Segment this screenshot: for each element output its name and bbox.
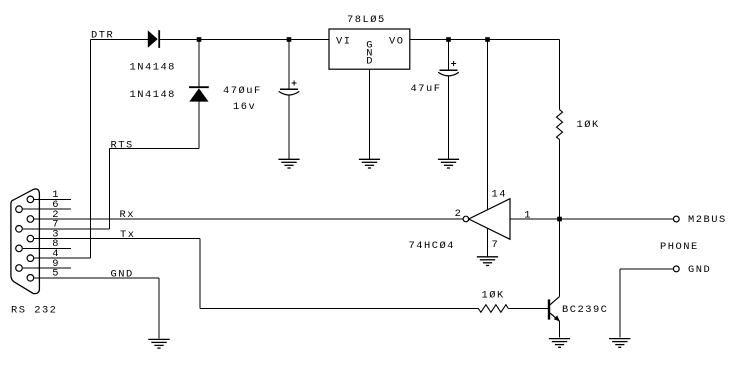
junction rail/D2 bbox=[197, 37, 202, 42]
regulator U2 78L05 box bbox=[329, 29, 410, 69]
wire R1 to junction bbox=[559, 140, 561, 219]
svg-text:78LØ5: 78LØ5 bbox=[347, 14, 386, 26]
svg-text:VO: VO bbox=[389, 35, 404, 47]
capacitor C1 470uF 16v bbox=[279, 81, 300, 96]
DB9 pin 4 bbox=[27, 248, 71, 262]
svg-text:BC239C: BC239C bbox=[562, 304, 608, 316]
DB9 pin 7 bbox=[16, 219, 71, 233]
svg-text:1ØK: 1ØK bbox=[482, 290, 505, 302]
terminal GND bbox=[673, 266, 679, 272]
wire Q1 collector bbox=[559, 219, 561, 297]
wire rail to C2 bbox=[448, 40, 450, 70]
wire Tx bottom horizontal bbox=[200, 308, 478, 310]
wire C2 to ground bbox=[448, 76, 450, 159]
svg-text:47uF: 47uF bbox=[411, 83, 442, 95]
svg-text:Rx: Rx bbox=[120, 209, 135, 221]
diode D2 1N4148 bbox=[189, 87, 209, 101]
DB9 connector shell bbox=[11, 189, 40, 294]
wire Q1 emitter to ground bbox=[559, 321, 561, 337]
wire RTS horizontal bbox=[110, 148, 199, 150]
wire D2 anode to RTS bbox=[198, 102, 200, 149]
wire rail to U1 pin14 bbox=[487, 40, 489, 210]
wire U1 pin1 to M2BUS bbox=[510, 218, 673, 220]
wire VO rail bbox=[410, 39, 560, 41]
wire DTR to D1 anode bbox=[90, 39, 148, 41]
wire U1 pin7 to ground bbox=[487, 228, 489, 256]
resistor R2 10K (horizontal) bbox=[478, 305, 508, 313]
wire 78L05 GND pin bbox=[369, 69, 371, 159]
wire C1 to ground bbox=[288, 95, 290, 158]
svg-text:1N4148: 1N4148 bbox=[130, 61, 176, 73]
DB9 pin 2 bbox=[27, 209, 71, 223]
label pin GND (stacked) bbox=[366, 40, 374, 68]
wire pin7 to RTS vertical bbox=[71, 228, 110, 230]
wire Tx vertical bbox=[199, 239, 201, 309]
svg-text:VI: VI bbox=[336, 35, 351, 47]
wire RTS vertical bbox=[109, 149, 111, 229]
U1 output bubble pin2 bbox=[463, 216, 469, 222]
svg-text:GND: GND bbox=[111, 268, 134, 280]
transistor Q1 BC239C bbox=[549, 297, 560, 322]
junction rail/C2 bbox=[446, 37, 451, 42]
svg-text:47ØuF: 47ØuF bbox=[223, 85, 262, 97]
wire DTR vertical bbox=[89, 40, 91, 259]
ground RS232 bbox=[148, 339, 169, 348]
wire rail to C1 bbox=[288, 40, 290, 89]
svg-text:D: D bbox=[366, 55, 374, 67]
wire GND vertical bbox=[158, 278, 160, 339]
wire rail to D2 cathode bbox=[198, 40, 200, 87]
DB9 pin 3 bbox=[27, 228, 71, 242]
ground GND terminal bbox=[609, 339, 630, 348]
DB9 pin 8 bbox=[16, 238, 71, 252]
capacitor C2 47uF bbox=[438, 61, 459, 76]
svg-text:1N4148: 1N4148 bbox=[130, 89, 176, 101]
diode D1 1N4148 bbox=[148, 30, 159, 48]
terminal M2BUS bbox=[673, 216, 679, 222]
svg-text:RS 232: RS 232 bbox=[11, 304, 57, 316]
wire pin5 GND bbox=[34, 277, 159, 279]
svg-text:14: 14 bbox=[492, 188, 507, 200]
wire Rx (pin2 to U1 bubble) bbox=[34, 218, 463, 220]
ground C2 bbox=[438, 159, 459, 168]
DB9 pin 9 bbox=[16, 258, 71, 272]
ground C1 bbox=[278, 159, 299, 168]
ground U1 pin7 bbox=[477, 257, 498, 266]
svg-text:GND: GND bbox=[688, 264, 711, 276]
svg-text:74HCØ4: 74HCØ4 bbox=[409, 240, 455, 252]
resistor R1 10K (vertical) bbox=[557, 110, 563, 140]
svg-text:1: 1 bbox=[524, 209, 532, 221]
svg-text:7: 7 bbox=[492, 239, 500, 251]
junction M2BUS/collector bbox=[557, 217, 562, 222]
svg-text:2: 2 bbox=[455, 208, 463, 220]
wire D1 cathode to 78L05 VI bbox=[160, 39, 329, 41]
junction rail/pin14 bbox=[485, 37, 490, 42]
DB9 pin 1 bbox=[27, 189, 71, 203]
svg-text:PHONE: PHONE bbox=[660, 241, 699, 253]
wire R2 to Q1 base bbox=[508, 308, 548, 310]
DB9 pin 5 bbox=[27, 268, 71, 282]
svg-text:RTS: RTS bbox=[111, 140, 134, 152]
wire rail down to R1 bbox=[559, 40, 561, 110]
wire Tx (pin3) bbox=[34, 238, 200, 240]
op-amp U1 74HC04 inverter triangle bbox=[469, 199, 510, 240]
wire pin4 to DTR vertical bbox=[71, 257, 90, 259]
ground 78L05 bbox=[359, 159, 380, 168]
svg-text:16v: 16v bbox=[233, 101, 256, 113]
svg-text:1ØK: 1ØK bbox=[577, 119, 600, 131]
svg-text:Tx: Tx bbox=[120, 229, 135, 241]
wire GND terminal vertical bbox=[619, 269, 621, 338]
ground Q1 emitter bbox=[549, 339, 570, 348]
svg-text:M2BUS: M2BUS bbox=[688, 214, 727, 226]
DB9 pin 6 bbox=[16, 199, 71, 213]
wire GND terminal horizontal bbox=[620, 268, 674, 270]
junction rail/C1 bbox=[287, 37, 292, 42]
